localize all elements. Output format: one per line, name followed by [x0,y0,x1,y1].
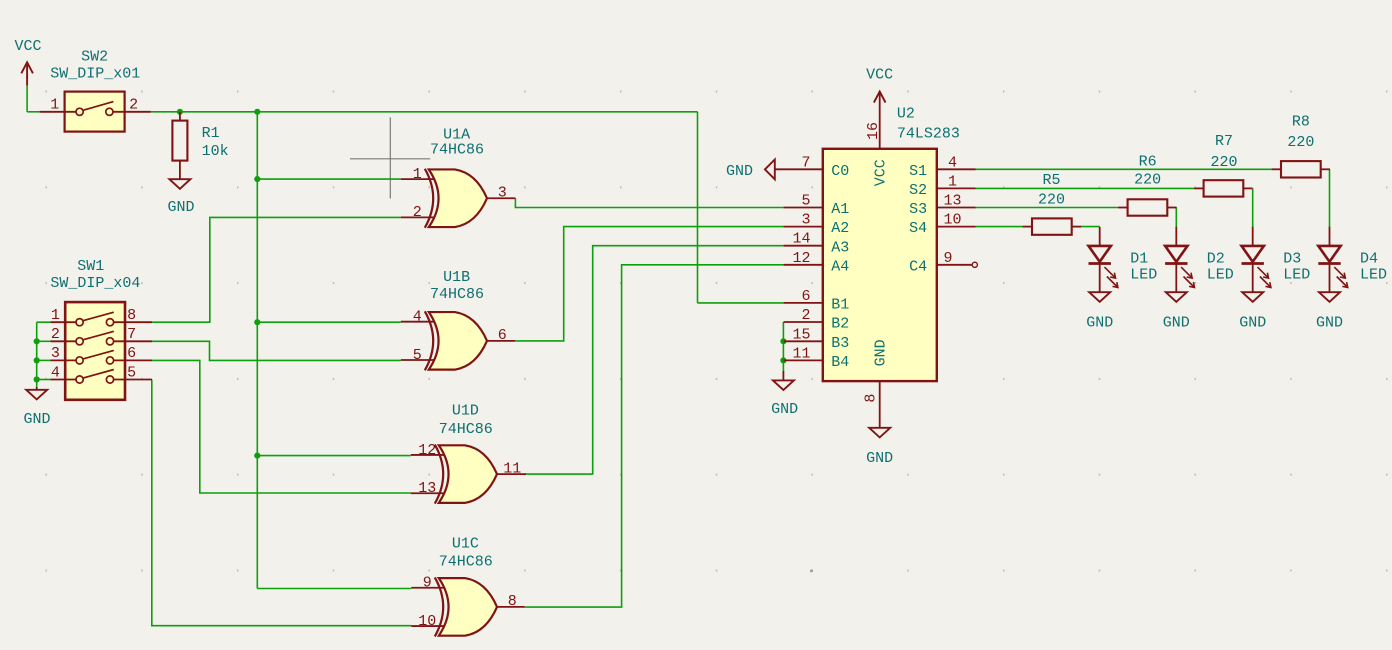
wire vertical control net [256,112,258,589]
svg-text:LED: LED [1283,267,1310,284]
svg-text:GND: GND [1316,314,1343,331]
svg-text:10: 10 [943,212,961,229]
XOR gate U1A 74HC86 [425,169,487,228]
wire SW2.2 top run [151,111,698,113]
svg-text:1: 1 [51,307,60,324]
svg-text:4: 4 [51,364,60,381]
junction U1D.12 [254,453,260,459]
resistor R8 220 [1281,161,1321,177]
ground below D2 [1166,292,1187,302]
pin U2 A4 (12) [784,264,823,266]
svg-text:S2: S2 [909,182,927,199]
svg-text:U2: U2 [897,106,915,123]
pin U1A input 2 [401,216,435,218]
wire to U1C.9 [257,588,411,590]
pin U1A input 1 [401,178,435,180]
svg-text:14: 14 [792,231,810,248]
svg-text:U1D: U1D [452,402,479,419]
pin U1C input 9 [411,587,445,589]
XOR gate U1B 74HC86 [425,311,487,370]
svg-text:U1B: U1B [443,269,470,286]
svg-text:4: 4 [948,154,957,171]
wire U1A.3 to U2 A1 [515,198,783,207]
svg-text:7: 7 [801,154,810,171]
svg-text:GND: GND [726,163,753,180]
svg-text:SW_DIP_x04: SW_DIP_x04 [50,275,140,292]
svg-text:R7: R7 [1215,133,1233,150]
wire R7 to D3 [1252,188,1254,227]
svg-text:D3: D3 [1283,251,1301,268]
svg-text:A4: A4 [831,258,849,275]
pin U1D output 11 [497,473,526,475]
svg-text:LED: LED [1130,267,1157,284]
junction at R1 top [177,109,183,115]
pin R8 left [1272,168,1281,170]
pin R1 bottom [179,161,181,180]
svg-text:B3: B3 [831,335,849,352]
svg-text:3: 3 [498,184,507,201]
resistor R1 [172,121,187,161]
ground below SW1 [36,387,38,390]
wire down to B1 [697,112,699,303]
junction SW1.4 [34,376,40,382]
pin U2 B2 (2) [784,321,823,323]
svg-text:VCC: VCC [872,159,889,186]
resistor R7 220 [1204,180,1244,196]
pin R8 right [1321,168,1330,170]
pin D3 anode [1252,227,1254,246]
pin U1C input 10 [411,625,445,627]
pin SW1.8 [114,321,152,323]
wire R8 to D4 [1329,169,1331,227]
svg-text:10k: 10k [202,143,229,160]
pin U2 VCC (16) [879,92,881,149]
IC U2 74LS283 body [823,149,937,381]
pin SW1.6 [114,359,152,361]
svg-text:15: 15 [792,326,810,343]
svg-text:R8: R8 [1292,114,1310,131]
pin R5 left [1023,226,1032,228]
switch SW2 SW_DIP_x01 [65,92,125,132]
pin U1B input 5 [401,359,435,361]
svg-text:8: 8 [862,394,879,403]
svg-text:6: 6 [498,327,507,344]
svg-text:1: 1 [413,166,422,183]
pin R6 left [1118,207,1127,209]
pin U2 C0 (7) [775,168,823,170]
svg-text:A2: A2 [831,220,849,237]
ground below D1 [1089,292,1110,302]
svg-text:S3: S3 [909,201,927,218]
wire SW1 left common [36,322,38,387]
svg-text:SW1: SW1 [77,258,104,275]
wire S4 to R5 [976,226,1023,228]
pin D2 anode [1175,227,1177,246]
svg-text:9: 9 [423,575,432,592]
svg-text:R1: R1 [202,125,220,142]
junction SW1.2 [34,338,40,344]
svg-text:C0: C0 [831,163,849,180]
svg-text:R5: R5 [1042,172,1060,189]
pin U2 S1 (4) [937,168,976,170]
pin U2 C4 (9) [937,264,972,266]
svg-text:VCC: VCC [866,66,893,83]
pin U2 A1 (5) [784,207,823,209]
svg-text:C4: C4 [909,258,927,275]
wire to U1B.4 [257,321,401,323]
svg-text:GND: GND [872,339,889,366]
pin R7 right [1243,187,1252,189]
svg-text:13: 13 [943,193,961,210]
wire U1C.8 to U2 A4 [525,265,784,607]
svg-text:11: 11 [792,345,810,362]
pin U2 A3 (14) [784,245,823,247]
svg-text:5: 5 [127,364,136,381]
pin D1 anode [1099,227,1101,246]
wire SW1.5 to U1C.10 [152,380,411,626]
resistor R6 220 [1128,199,1168,215]
ground below D3 [1242,292,1263,302]
wire to U1D.12 [257,455,411,457]
svg-text:10: 10 [418,613,436,630]
svg-text:74HC86: 74HC86 [439,553,493,570]
wire to U2 B1 [698,302,784,304]
svg-text:2: 2 [801,307,810,324]
svg-text:12: 12 [418,442,436,459]
svg-text:B4: B4 [831,354,849,371]
svg-text:74HC86: 74HC86 [430,286,484,303]
svg-text:1: 1 [50,97,59,114]
svg-text:D1: D1 [1130,251,1148,268]
wire U1D.11 to U2 A3 [526,246,784,474]
pin SW1.7 [114,340,152,342]
wire SW1.7 to U1B.5 [152,341,401,360]
svg-text:3: 3 [801,212,810,229]
pin U1D input 13 [411,492,445,494]
pin U2 B3 (15) [784,340,823,342]
pin R7 left [1194,187,1203,189]
svg-text:LED: LED [1207,267,1234,284]
pin U2 S3 (13) [937,207,976,209]
wire U1B.6 to U2 A2 [515,227,784,341]
XOR gate U1D 74HC86 [435,445,497,504]
svg-text:S4: S4 [909,220,927,237]
pin U1B output 6 [487,340,515,342]
svg-text:GND: GND [866,450,893,467]
XOR gate U1C 74HC86 [435,577,497,636]
svg-text:SW2: SW2 [81,49,108,66]
svg-text:12: 12 [792,250,810,267]
junction B4 [780,357,786,363]
svg-text:2: 2 [129,97,138,114]
pin U2 B1 (6) [784,302,823,304]
svg-text:2: 2 [413,204,422,221]
svg-text:B1: B1 [831,297,849,314]
ground below D4 [1319,292,1340,302]
VCC arrow above U2 [874,92,886,103]
svg-text:220: 220 [1134,171,1161,188]
crosshair cursor [350,117,430,198]
svg-text:R6: R6 [1139,153,1157,170]
pin U2 B4 (11) [784,359,823,361]
switch SW1 SW_DIP_x04 [65,302,125,400]
svg-text:74HC86: 74HC86 [430,142,484,159]
svg-text:SW_DIP_x01: SW_DIP_x01 [50,66,140,83]
unconnected end circle C4 [972,262,977,267]
svg-text:5: 5 [801,193,810,210]
junction U1A.1 [254,176,260,182]
pin SW2.1 [40,111,76,113]
svg-text:S1: S1 [909,163,927,180]
pin U1D input 12 [411,454,445,456]
svg-text:74LS283: 74LS283 [897,126,960,143]
pin D4 anode [1329,227,1331,246]
ground below R1 [169,179,190,189]
svg-text:A3: A3 [831,239,849,256]
wire to U1A.1 [257,178,401,180]
svg-text:11: 11 [503,460,521,477]
svg-text:220: 220 [1038,192,1065,209]
wire SW1.8 to U1A.2 [152,217,401,322]
ground below B4 [782,371,784,380]
svg-text:16: 16 [865,122,882,140]
LED D4 [1318,246,1347,292]
pin U2 A2 (3) [784,226,823,228]
wire S1 to R8 [976,168,1272,170]
svg-text:U1C: U1C [452,535,479,552]
pin SW2.2 [113,111,151,113]
pin U1B input 4 [401,321,435,323]
svg-text:B2: B2 [831,316,849,333]
svg-text:6: 6 [801,288,810,305]
pin SW1.1 [51,321,77,323]
pin R5 right [1072,226,1081,228]
resistor R5 220 [1032,218,1072,234]
pin U1A output 3 [487,197,515,199]
svg-text:VCC: VCC [14,38,41,55]
junction B3 [780,338,786,344]
svg-text:6: 6 [127,345,136,362]
svg-text:74HC86: 74HC86 [439,421,493,438]
pin U1C output 8 [497,606,525,608]
svg-text:GND: GND [1086,314,1113,331]
pin R6 right [1167,207,1176,209]
svg-text:2: 2 [51,326,60,343]
svg-text:1: 1 [948,173,957,190]
pin SW1.3 [51,359,77,361]
svg-text:D2: D2 [1207,251,1225,268]
pin R1 top [179,112,181,121]
wire SW1.6 to U1D.13 [152,360,411,493]
svg-text:7: 7 [127,326,136,343]
LED D3 [1242,246,1271,292]
wire B2-B3-B4 tie [782,322,784,371]
wire S2 to R7 [976,187,1195,189]
ground below U2 [869,428,890,438]
pin U2 GND (8) [879,381,881,428]
junction top run / control net [254,109,260,115]
svg-text:13: 13 [418,480,436,497]
pin SW1.5 [114,379,152,381]
svg-text:220: 220 [1210,154,1237,171]
svg-text:8: 8 [508,593,517,610]
wire S3 to R6 [976,207,1119,209]
svg-text:9: 9 [943,250,952,267]
svg-text:LED: LED [1360,267,1387,284]
LED D1 [1089,246,1118,292]
ground flag at C0 (pointing left) [765,160,775,180]
svg-text:GND: GND [1163,314,1190,331]
svg-text:220: 220 [1287,134,1314,151]
svg-text:D4: D4 [1360,251,1378,268]
LED D2 [1165,246,1194,292]
pin U2 S4 (10) [937,226,976,228]
svg-text:8: 8 [127,307,136,324]
wire R6 to D2 [1175,208,1177,228]
svg-text:GND: GND [23,411,50,428]
junction SW1.3 [34,357,40,363]
wire R5 to D1 [1081,226,1100,228]
svg-text:GND: GND [167,199,194,216]
pin SW1.2 [51,340,77,342]
svg-text:A1: A1 [831,201,849,218]
junction U1B.4 [254,319,260,325]
svg-text:5: 5 [413,347,422,364]
VCC arrow symbol (left) [21,62,33,73]
pin U2 S2 (1) [937,187,976,189]
pin SW1.4 [51,379,77,381]
svg-text:GND: GND [771,401,798,418]
svg-text:GND: GND [1239,314,1266,331]
svg-text:3: 3 [51,345,60,362]
svg-text:4: 4 [413,309,422,326]
wire VCC to SW2 [26,85,28,112]
